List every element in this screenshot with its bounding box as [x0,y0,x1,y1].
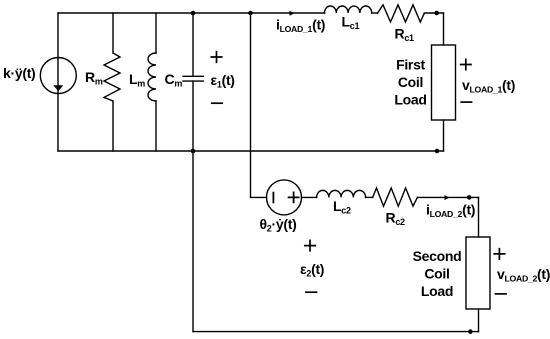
wire second row [302,196,317,198]
polarity + for vLOAD_2 [494,249,505,259]
node dot second row [467,195,472,200]
polarity − for ε2 [306,291,317,293]
svg-text:First: First [396,57,425,73]
wire middle column x=250 [250,13,252,151]
wire left column [57,13,59,151]
wire bottom rail of primary loop [58,150,444,152]
resistor Rc1 [378,5,425,22]
node dot bottom Cm [191,149,196,154]
voltage source θ2·ẏ(t) [267,180,302,215]
node dot bottom right [435,149,440,154]
wire from node to source 2 [251,151,267,197]
polarity − for vLOAD_1 [461,101,471,103]
svg-text:Rm: Rm [85,69,103,87]
svg-text:vLOAD_2(t): vLOAD_2(t) [497,266,550,284]
wire right column lower segment [443,120,445,151]
inductor Lc1 [325,6,372,13]
current source k·ÿ(t) [40,58,76,94]
node dot top right [434,11,439,16]
svg-text:Load: Load [421,283,453,299]
polarity − for vLOAD_2 [496,293,507,295]
svg-text:Second: Second [413,248,462,264]
svg-text:iLOAD_1(t): iLOAD_1(t) [276,17,325,35]
svg-text:Lc1: Lc1 [342,14,360,32]
svg-text:k·ÿ(t): k·ÿ(t) [3,65,35,81]
polarity + for ε1 [211,52,222,63]
load box Second Coil Load [466,237,490,309]
wire right lower column [478,197,480,237]
svg-text:Rc2: Rc2 [386,210,406,228]
svg-text:ε2(t): ε2(t) [300,261,324,279]
node dot top mid [248,11,253,16]
capacitor Cm [183,13,203,151]
polarity + for ε2 [305,240,316,250]
svg-text:θ2·ẏ(t): θ2·ẏ(t) [260,216,297,234]
svg-text:Lc2: Lc2 [333,198,351,216]
current arrow iLOAD_1 [290,11,295,16]
svg-text:Coil: Coil [424,266,449,282]
wire bottom rail [193,331,479,333]
polarity − for ε1 [212,102,223,104]
resistor Rm [104,13,120,151]
svg-text:ε1(t): ε1(t) [211,72,235,90]
wire left drop column to bottom rail [192,151,194,332]
load box First Coil Load [432,45,456,120]
resistor Rc2 [373,188,418,206]
wire right column upper segment [443,13,445,45]
node dot bottom rail [468,329,473,334]
svg-text:iLOAD_2(t): iLOAD_2(t) [426,202,475,220]
wire top rail [58,12,325,14]
node dot top Cm [191,11,196,16]
svg-text:Lm: Lm [129,71,145,89]
inductor Lm [148,13,156,151]
svg-text:Load: Load [394,92,426,108]
current arrow iLOAD_2 [445,195,450,200]
inductor Lc2 [317,190,366,197]
polarity + for vLOAD_1 [461,59,471,69]
svg-text:vLOAD_1(t): vLOAD_1(t) [462,77,515,95]
svg-text:Cm: Cm [165,71,183,89]
svg-text:Coil: Coil [398,74,423,90]
svg-text:Rc1: Rc1 [395,26,415,44]
